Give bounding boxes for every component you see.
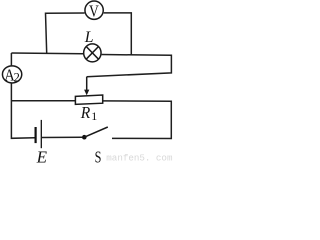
lamp L symbol	[84, 44, 101, 62]
wire R1 right stub, right rail lower, bottom row	[103, 101, 171, 139]
svg-text:E: E	[36, 147, 48, 163]
rheostat slider arrow	[84, 77, 89, 96]
wire top-right run: V to corner, down to lamp row	[104, 13, 132, 55]
label R1	[80, 103, 97, 123]
svg-text:L: L	[84, 29, 94, 46]
svg-text:manfen5. com: manfen5. com	[106, 153, 173, 163]
svg-text:V: V	[89, 1, 99, 20]
resistor R1 box (slightly tilted)	[75, 95, 102, 104]
ammeter A2	[2, 66, 21, 85]
svg-text:2: 2	[14, 70, 20, 84]
svg-text:R: R	[80, 103, 91, 122]
wire battery to switch	[42, 136, 82, 138]
svg-text:S: S	[95, 147, 102, 163]
voltmeter V	[85, 1, 103, 20]
svg-text:1: 1	[91, 109, 97, 123]
wire lamp row right, right rail upper, slider row	[87, 55, 172, 77]
wire A2 bottom vertical to bottom-left corner	[11, 84, 34, 139]
battery E plates	[35, 120, 42, 148]
wire R1 row left	[11, 100, 75, 102]
wire A2 top vertical	[10, 53, 12, 65]
switch S	[82, 127, 108, 140]
wire lamp row left	[11, 52, 83, 55]
wire top-left run: corner at (45.7,12.9) down to lamp row	[46, 13, 85, 53]
